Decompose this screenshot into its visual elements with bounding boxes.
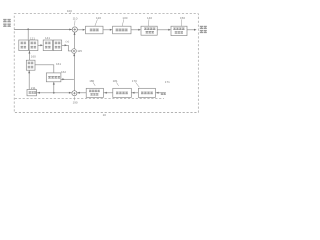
adder circle U3	[72, 91, 77, 96]
wire: L to K	[132, 92, 139, 94]
label 170 above L	[132, 79, 140, 87]
box K	[113, 88, 132, 97]
wire: box C to box D	[157, 29, 168, 31]
svg-text:161: 161	[56, 62, 61, 66]
svg-text:130: 130	[122, 16, 127, 20]
output signal label	[200, 26, 207, 33]
wire: main vertical U3 to U2	[73, 53, 75, 90]
box H	[27, 90, 37, 96]
wire: E1 down to E2	[28, 51, 30, 60]
svg-text:10: 10	[103, 113, 107, 117]
svg-text:171: 171	[165, 80, 170, 84]
wire: adder to box A	[77, 29, 83, 31]
wire: bottom feed up into box I	[53, 82, 55, 93]
input signal label	[3, 19, 11, 27]
label 120	[95, 16, 101, 26]
wire: U3 to box J	[77, 92, 86, 94]
wire: feedback stub into L	[156, 92, 166, 94]
wire: G to adder U2	[62, 45, 72, 51]
box B	[113, 26, 131, 34]
wire: box B to box C	[131, 29, 139, 31]
label 150	[180, 16, 185, 26]
svg-text:170: 170	[132, 79, 137, 83]
svg-text:181: 181	[113, 79, 118, 83]
adder circle U1	[72, 27, 77, 32]
box F	[43, 40, 52, 51]
svg-text:100: 100	[67, 9, 72, 13]
svg-text:115: 115	[77, 49, 82, 53]
box E2	[26, 60, 35, 70]
node: branch dot on input wire	[27, 28, 29, 30]
wire: box D to output	[187, 29, 194, 31]
svg-text:(+): (+)	[66, 39, 70, 43]
wire: box A to box B	[103, 29, 110, 31]
box I	[46, 73, 61, 82]
label 190 below U3	[73, 96, 78, 104]
label 180 above J	[89, 79, 95, 86]
svg-text:141: 141	[45, 36, 50, 40]
label 181 above K	[113, 79, 119, 86]
wire: main vertical U2 to U1	[74, 32, 76, 49]
label 140	[147, 16, 152, 26]
wire: input line	[14, 29, 72, 31]
label 141 above F	[45, 36, 50, 40]
svg-text:110: 110	[73, 17, 78, 21]
stub source label	[161, 93, 166, 95]
inner dashed partition line	[15, 98, 164, 100]
wire: bottom row H to U3	[37, 92, 72, 94]
svg-text:162: 162	[61, 70, 66, 74]
wire: E1 to F	[38, 44, 42, 46]
wire: K to J	[104, 92, 113, 94]
svg-text:140: 140	[147, 16, 152, 20]
box E0	[19, 40, 29, 51]
label 110	[73, 17, 78, 26]
box L	[138, 88, 155, 97]
box G	[53, 40, 61, 51]
label 100	[67, 9, 72, 13]
svg-text:180: 180	[89, 79, 94, 83]
box D	[171, 26, 187, 35]
wire: box I output to main vertical	[61, 78, 74, 80]
wire: E2 right then down to box I	[35, 65, 54, 73]
box C	[141, 26, 157, 35]
box A	[86, 26, 104, 34]
label 130	[122, 16, 128, 26]
label 161	[56, 62, 61, 66]
wire: branch down to second row	[27, 29, 29, 40]
svg-text:190: 190	[73, 100, 78, 104]
arrowhead into adder U1	[69, 29, 72, 31]
box E1	[29, 40, 38, 51]
wire: H up to E2 with arrowhead	[28, 70, 30, 89]
outer dashed boundary box	[14, 14, 198, 113]
adder circle U2	[72, 49, 77, 54]
svg-text:120: 120	[96, 16, 101, 20]
svg-text:150: 150	[180, 16, 185, 20]
svg-text:160: 160	[31, 54, 36, 58]
box J	[86, 88, 103, 97]
